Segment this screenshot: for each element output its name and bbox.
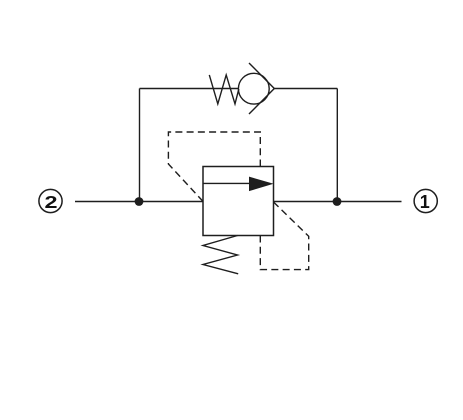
svg-text:1: 1 <box>420 192 430 212</box>
svg-text:2: 2 <box>44 192 57 212</box>
